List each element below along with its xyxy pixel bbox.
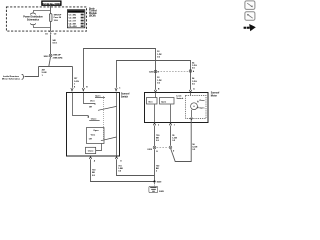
svg-text:Motor: Motor — [211, 94, 217, 97]
wire pin1 into relay — [155, 93, 157, 98]
pin motor top 2 — [189, 87, 195, 92]
relay box vent — [147, 98, 158, 105]
svg-text:(BCM): (BCM) — [89, 16, 96, 18]
icon jump arrow — [244, 24, 256, 31]
wire relay2 down — [170, 105, 172, 123]
wire pin B internal — [84, 93, 96, 105]
pin A — [89, 157, 95, 163]
node Power Distribution Schematics reference — [23, 12, 43, 25]
sunroof motor box — [145, 93, 209, 123]
svg-text:Switch: Switch — [176, 97, 183, 100]
wire right loop to motor case — [171, 120, 191, 161]
contact close — [89, 120, 99, 122]
icon zoom in — [245, 12, 255, 20]
wire relay1 down — [154, 105, 156, 123]
svg-text:10 A: 10 A — [54, 19, 59, 22]
pin B — [82, 86, 88, 91]
wire pin2 into dashed box — [190, 92, 192, 95]
svg-text:Open: Open — [161, 101, 167, 103]
wire pin B riser and top run — [84, 49, 156, 90]
svg-text:Open: Open — [95, 95, 101, 97]
node switch position labels — [89, 95, 101, 120]
wire fuse to connector C9 — [50, 22, 52, 32]
svg-text:Open: Open — [199, 107, 205, 109]
svg-text:C5 = WH: C5 = WH — [69, 26, 77, 28]
wire dashed drop to ground — [154, 183, 156, 187]
node Inside Rearview Mirror Schematics reference — [2, 74, 24, 80]
contact open — [95, 97, 105, 99]
svg-text:2 BN (S/R): 2 BN (S/R) — [53, 57, 63, 59]
svg-text:Sunroof: Sunroof — [211, 93, 220, 95]
svg-text:Off: Off — [89, 139, 92, 141]
svg-text:Open: Open — [93, 130, 99, 132]
fuse F26 — [49, 14, 62, 22]
wire label run2 top — [192, 61, 197, 69]
wiper arm upper — [98, 106, 117, 110]
wire motor pin2 down — [170, 126, 172, 146]
wire label ground trunk — [156, 165, 160, 172]
motor M1 — [191, 100, 206, 109]
wire right internal vertical — [116, 93, 118, 157]
svg-text:HOT AT ALL TIMES: HOT AT ALL TIMES — [42, 2, 61, 5]
wire label pin A — [92, 170, 96, 177]
svg-text:Sunroof: Sunroof — [121, 94, 130, 96]
svg-text:Close: Close — [199, 100, 205, 102]
wire dashed connector link C410 — [157, 147, 169, 149]
wire pin C riser and second run — [117, 61, 191, 90]
wire label motor pin2 — [172, 135, 177, 142]
svg-text:CONN ID: CONN ID — [72, 11, 80, 13]
wire label motor pin1 — [156, 135, 160, 142]
svg-text:C4 = BK: C4 = BK — [69, 23, 77, 26]
connector C410 right — [169, 146, 175, 153]
wire label pin D — [118, 165, 123, 172]
pin motor bottom inner — [190, 118, 192, 120]
svg-text:Vent: Vent — [91, 134, 96, 137]
pin D — [115, 157, 122, 163]
icon zoom out — [245, 1, 255, 10]
splice S309 — [153, 180, 162, 183]
pin motor bottom 2 — [169, 123, 175, 127]
wire ground trunk — [154, 149, 156, 181]
svg-text:Close: Close — [88, 151, 95, 153]
connector C9 — [45, 31, 57, 35]
connector C260 on riser — [149, 70, 160, 73]
svg-text:2: 2 — [158, 125, 159, 127]
inner switch box — [87, 128, 105, 144]
node Sunroof Motor label — [211, 93, 220, 98]
pin C — [115, 87, 121, 91]
svg-text:Vent: Vent — [90, 100, 95, 103]
svg-text:C3 = GY: C3 = GY — [69, 21, 77, 23]
pin motor top 1 — [154, 88, 160, 92]
node Sunroof Switch label — [121, 94, 130, 99]
motor interior — [147, 92, 192, 122]
wire mirror branch — [25, 67, 39, 77]
svg-text:Close: Close — [91, 118, 98, 120]
mech dashed link — [103, 96, 105, 141]
wiper arm lower — [101, 137, 117, 141]
wire pin A ground run — [91, 159, 155, 181]
wire loop reference-to-fuse — [34, 11, 51, 13]
wire loop bottom — [34, 25, 51, 27]
svg-text:C2 = BN: C2 = BN — [69, 18, 77, 20]
svg-text:Switch: Switch — [121, 95, 129, 98]
node HOT AT ALL TIMES label box — [42, 1, 61, 5]
svg-text:Vent: Vent — [148, 100, 153, 103]
wire pin E internal — [73, 93, 89, 116]
pin motor bottom 1 — [153, 123, 159, 127]
motor dashed box — [186, 96, 207, 119]
close contact box — [86, 147, 96, 153]
splice S263 — [44, 54, 63, 59]
BCM dashed outline box — [6, 7, 86, 31]
wire battery feed down from hot box — [50, 5, 52, 13]
sunroof switch box — [67, 93, 120, 157]
node Body Control Module (BCM) label — [89, 8, 98, 17]
svg-text:1: 1 — [174, 125, 175, 127]
connector C410 left — [147, 146, 158, 153]
wire close box link — [96, 144, 102, 151]
wire label mirror branch — [42, 69, 47, 77]
svg-text:Schematics: Schematics — [27, 18, 40, 21]
wire horizontal bus y66.5 — [39, 66, 73, 68]
wire motor down — [191, 110, 193, 118]
wire label motor case — [192, 144, 197, 151]
svg-text:Power Distribution: Power Distribution — [23, 16, 43, 19]
wire label 340 OG — [52, 39, 58, 45]
wire label run2 bottom — [192, 77, 197, 85]
svg-text:Mirror Schematics: Mirror Schematics — [2, 78, 21, 81]
ground G305 — [149, 186, 165, 193]
wire label riser bottom — [157, 77, 162, 84]
svg-text:Off: Off — [89, 107, 92, 109]
wire label riser top — [157, 51, 162, 58]
svg-text:C1 = BU: C1 = BU — [69, 15, 77, 17]
wire label pin E — [74, 78, 79, 85]
BCM connector table — [67, 10, 84, 29]
svg-text:Limit: Limit — [176, 95, 181, 98]
wire dashed connector link C260 — [158, 71, 189, 73]
wire motor pin1 down — [154, 126, 156, 146]
wire pin D ground run — [117, 159, 155, 175]
wire pin E drop — [72, 67, 74, 88]
node Limit Switch label — [176, 95, 183, 101]
junction dot internal — [88, 116, 90, 118]
pin E — [71, 86, 76, 91]
wire splice diagonal to bus — [49, 57, 51, 67]
relay box open — [160, 98, 175, 105]
wire connector to splice — [50, 34, 52, 54]
connector C260 on run2 — [189, 70, 195, 73]
switch interior — [73, 93, 117, 157]
